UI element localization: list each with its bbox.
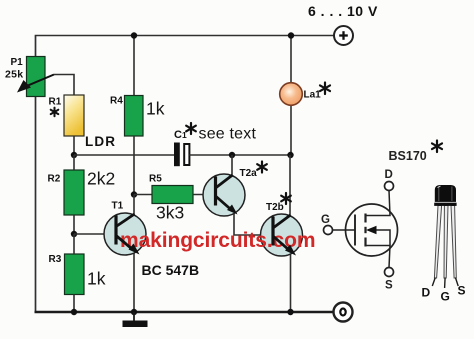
node T1 emitter / ground (131, 309, 137, 315)
svg-text:T1: T1 (112, 201, 124, 212)
transistor T2a internals (216, 175, 233, 210)
terminal + supply (334, 26, 353, 45)
wire C1 to T2 collectors (189, 154, 291, 156)
wire R3 top lead (73, 234, 75, 254)
wire R1 bottom lead (73, 136, 75, 156)
resistor R5 (152, 186, 193, 204)
svg-text:R4: R4 (110, 96, 123, 107)
svg-text:S: S (385, 280, 393, 292)
svg-text:T2a: T2a (240, 168, 258, 179)
wire lamp branch upper (290, 36, 292, 85)
svg-text:T2b: T2b (266, 202, 284, 213)
transistor T2b internals (273, 215, 291, 250)
channel segments (364, 214, 366, 247)
asterisk T2b (281, 193, 291, 204)
transistor T2a body (203, 174, 245, 216)
wire node to R5 (134, 194, 152, 196)
gate lead (333, 229, 356, 231)
asterisk T2a (257, 162, 267, 173)
svg-text:R1: R1 (49, 97, 62, 108)
svg-text:25k: 25k (5, 69, 23, 81)
wire R5 to T2a base (193, 194, 216, 196)
asterisk La1 (320, 83, 330, 95)
svg-text:1k: 1k (146, 99, 165, 119)
svg-text:1k: 1k (87, 269, 106, 289)
resistor R2 (64, 170, 84, 215)
resistor R4 (125, 96, 144, 137)
svg-text:BC 547B: BC 547B (142, 262, 200, 278)
transistor T2a emitter arrow (227, 205, 238, 215)
svg-text:3k3: 3k3 (156, 203, 184, 223)
node lamp / T2b collector (287, 152, 293, 158)
ground (123, 312, 148, 327)
wire R2 top lead (73, 155, 75, 170)
node R2/R3/T1 base (71, 231, 77, 237)
svg-text:G: G (321, 214, 330, 226)
svg-text:S: S (458, 284, 466, 298)
svg-text:R3: R3 (49, 254, 62, 265)
svg-text:D: D (385, 169, 393, 181)
terminal S (385, 268, 394, 277)
wire T2b collector lead (289, 155, 291, 218)
node R4/R5/T1 collector (131, 191, 137, 197)
wire top rail (35, 35, 334, 37)
source lead (366, 246, 391, 268)
resistor R3 (65, 254, 85, 295)
node T2a collector (229, 152, 235, 158)
svg-text:G: G (441, 290, 450, 304)
wire R3 bottom lead (73, 295, 75, 313)
svg-text:D: D (422, 286, 431, 300)
terminal G (324, 226, 333, 235)
svg-text:P1: P1 (11, 57, 24, 68)
svg-text:see text: see text (199, 126, 257, 143)
terminal 0 (334, 303, 353, 322)
TO-92 leg S (451, 206, 458, 287)
TO-92 package body (434, 185, 456, 206)
body connection (368, 230, 390, 246)
node R3 / bottom rail (71, 309, 77, 315)
transistor T2b emitter arrow (285, 245, 296, 256)
wire R4 bottom lead (133, 136, 135, 195)
wire T2a collector lead (231, 155, 233, 177)
mosfet U1 BS170 symbol (333, 191, 398, 268)
wire left rail (35, 36, 37, 313)
potentiometer P1 (17, 57, 54, 97)
wire T1 base (74, 233, 116, 235)
capacitor C1 (174, 143, 189, 167)
wire lamp branch lower (290, 104, 292, 155)
svg-text:6 . . . 10 V: 6 . . . 10 V (308, 3, 378, 19)
node top rail / lamp (288, 32, 294, 38)
svg-text:C1: C1 (174, 129, 187, 141)
wire R4 top lead (133, 36, 135, 97)
wire T2b emitter lead (290, 251, 292, 312)
transistor T1 emitter arrow (129, 244, 140, 255)
mosfet body arrow (366, 226, 377, 235)
asterisk C1 (186, 123, 196, 134)
svg-text:R5: R5 (149, 174, 162, 185)
lamp La1 (280, 83, 303, 106)
drain lead (366, 191, 391, 216)
wire T1 collector (133, 195, 135, 219)
transistor T2b body (261, 214, 303, 256)
asterisk BS170 (432, 141, 442, 153)
svg-text:BS170: BS170 (389, 149, 427, 163)
TO-92 leg D (432, 206, 441, 287)
transistor T1 internals (116, 214, 135, 249)
wire R2 bottom lead (73, 215, 75, 234)
resistor R1 (LDR) (64, 95, 84, 136)
wire T2a emitter to T2b base (234, 211, 273, 235)
svg-text:R2: R2 (48, 174, 61, 185)
node R1/R2/C1 (71, 152, 77, 158)
wire node to C1 (74, 154, 174, 156)
transistor T1 body (104, 213, 146, 255)
node top rail / R4 (131, 32, 137, 38)
svg-text:2k2: 2k2 (87, 169, 115, 189)
wire bottom rail (35, 311, 335, 314)
wire T1 emitter (133, 250, 135, 312)
terminal D (385, 182, 394, 191)
TO-92 leg G (444, 206, 448, 289)
asterisk R1 (51, 108, 59, 117)
gate bar (354, 215, 356, 246)
svg-text:La1: La1 (304, 90, 322, 101)
wire P1 wiper to R1 (54, 75, 74, 96)
node T2b emitter / bottom rail (287, 309, 293, 315)
svg-text:LDR: LDR (85, 134, 116, 149)
